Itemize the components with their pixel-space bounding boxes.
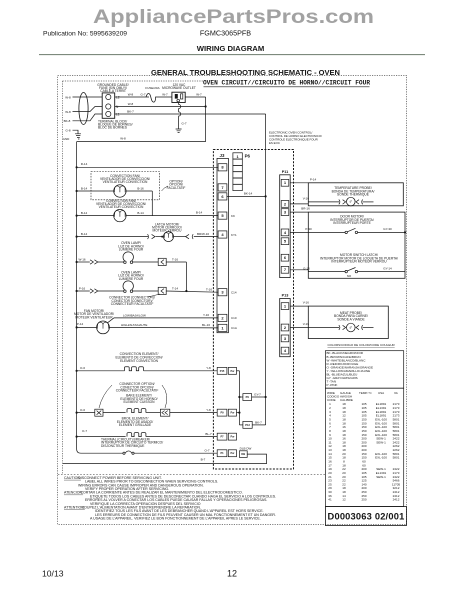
probe connector arrows left <box>339 200 346 205</box>
latch switch S2 <box>345 270 347 272</box>
left bus corner into breaker row <box>77 449 84 453</box>
svg-text:HIGH/ALTA/HAUTE: HIGH/ALTA/HAUTE <box>121 323 147 327</box>
wire gauge table box <box>325 388 403 506</box>
svg-text:KY1: KY1 <box>231 233 237 237</box>
P11 pin 6 <box>281 254 289 261</box>
svg-text:4: 4 <box>284 348 287 353</box>
svg-text:O-6: O-6 <box>80 366 85 370</box>
svg-text:O-7: O-7 <box>204 448 209 452</box>
svg-text:41: 41 <box>328 498 332 502</box>
J3 pin 8 <box>218 164 227 171</box>
lamp1 connector box <box>158 258 166 265</box>
svg-text:LUMIERE FOUR: LUMIERE FOUR <box>119 277 144 281</box>
P13 pin 1 <box>281 303 289 310</box>
svg-text:P-14: P-14 <box>310 178 317 182</box>
svg-text:DISJONCTEUR THERMIQUE: DISJONCTEUR THERMIQUE <box>101 444 145 448</box>
wire P-14 to fan motor <box>77 326 97 328</box>
wire BK-7 to BK net <box>252 424 265 426</box>
svg-text:2: 2 <box>284 201 287 206</box>
svg-text:SONDE A VIANDE: SONDE A VIANDE <box>337 317 365 321</box>
svg-text:WIRING DIAGRAM: WIRING DIAGRAM <box>197 44 264 53</box>
svg-text:T-14: T-14 <box>172 287 178 291</box>
wire breaker row <box>84 452 123 454</box>
svg-text:7: 7 <box>221 185 224 190</box>
wire outlet to corner <box>185 96 205 98</box>
svg-text:V-16: V-16 <box>303 322 310 326</box>
svg-text:GND: GND <box>63 137 71 141</box>
connector J3 outline <box>217 158 228 332</box>
svg-text:6: 6 <box>284 255 287 260</box>
probe connector arrows right <box>356 200 363 205</box>
pointer lines to connectors <box>99 385 112 408</box>
svg-text:VENTILATEUR CONVECTION: VENTILATEUR CONVECTION <box>103 180 148 184</box>
connector P15 <box>217 367 227 374</box>
svg-text:V-16: V-16 <box>303 196 310 200</box>
svg-text:EXL-100: EXL-100 <box>375 456 387 460</box>
ground symbol cable <box>75 134 81 139</box>
svg-text:VENTILATEUR CONVECTION: VENTILATEUR CONVECTION <box>99 205 144 209</box>
svg-text:G-8: G-8 <box>65 129 70 133</box>
svg-text:2412: 2412 <box>393 498 400 502</box>
wire P-14 P11 pin1 to temp probe box <box>290 182 308 184</box>
svg-text:V-16: V-16 <box>303 301 310 305</box>
wire G-16 P11 pin7 <box>290 269 308 271</box>
svg-text:2: 2 <box>284 325 287 330</box>
svg-text:Publication No: 5995639209: Publication No: 5995639209 <box>43 30 127 37</box>
svg-text:W-7: W-7 <box>162 93 168 97</box>
wire L2 row <box>115 96 149 98</box>
svg-text:T-16: T-16 <box>172 258 178 262</box>
inner frame left <box>62 81 64 474</box>
svg-text:5801: 5801 <box>393 456 400 460</box>
J3 pin 3 <box>218 289 227 296</box>
wire B-14 fan to J3 pin5 <box>126 215 218 217</box>
wire L2 drop to neutral corner <box>205 97 207 142</box>
wire GY-14 to right edge <box>358 271 406 273</box>
connector pair breaker <box>228 450 236 457</box>
P11 pin 5 <box>281 238 289 245</box>
header rule <box>39 54 425 56</box>
svg-text:B-14: B-14 <box>81 211 88 215</box>
lamp2 connector box <box>158 287 166 294</box>
svg-text:Y-8: Y-8 <box>206 366 211 370</box>
EOC control dashed box <box>213 150 293 470</box>
svg-text:W-8: W-8 <box>128 93 134 97</box>
P11 pin 4 <box>281 229 289 236</box>
J3 pin 5 <box>218 212 227 219</box>
svg-text:P-16: P-16 <box>79 287 86 291</box>
svg-text:Pw: Pw <box>231 369 236 373</box>
svg-text:Pw: Pw <box>231 435 236 439</box>
svg-text:C10: C10 <box>231 316 237 320</box>
cable oval <box>79 93 88 125</box>
svg-text:BL-16: BL-16 <box>202 323 210 327</box>
inner frame top <box>63 80 204 82</box>
svg-text:B-14: B-14 <box>81 232 88 236</box>
J3 pin 2 <box>218 314 227 321</box>
connector P13 outline <box>280 299 291 357</box>
bake element heater <box>127 409 146 413</box>
svg-text:BK-8: BK-8 <box>64 119 71 123</box>
wire junction to net <box>237 412 240 414</box>
svg-text:LUMIERE FOUR: LUMIERE FOUR <box>119 248 144 252</box>
latch motor M2 <box>164 232 174 242</box>
convection fan motor M1 <box>114 209 126 221</box>
terminal N <box>106 104 111 109</box>
svg-text:MOTEUR VENTILATEUR: MOTEUR VENTILATEUR <box>75 315 113 319</box>
color legend box <box>325 351 403 389</box>
svg-text:P7: P7 <box>220 435 224 439</box>
terminal L2 <box>106 94 111 99</box>
meat probe RT2 <box>347 323 356 332</box>
svg-text:BK-14: BK-14 <box>244 192 253 196</box>
wire to P9 drop <box>237 370 240 372</box>
svg-text:W-8: W-8 <box>128 102 134 106</box>
bake connector box chevrons <box>160 409 169 416</box>
wire from DB right and back to neutral <box>63 454 267 464</box>
svg-text:C1A: C1A <box>231 326 237 330</box>
connector P1 <box>217 450 227 457</box>
terminal block <box>102 93 115 118</box>
inner frame bottom <box>58 473 326 475</box>
svg-text:T-16: T-16 <box>206 287 212 291</box>
J3 pin 6 <box>218 193 227 200</box>
svg-text:W-8: W-8 <box>120 137 126 141</box>
svg-text:1: 1 <box>237 155 239 159</box>
terminal L1 <box>106 111 111 116</box>
svg-text:DB: DB <box>241 452 245 456</box>
svg-text:SEW-1: SEW-1 <box>376 475 386 479</box>
svg-text:GY-7: GY-7 <box>254 392 261 396</box>
svg-text:GENERAL TROUBLESHOOTING SCHEMA: GENERAL TROUBLESHOOTING SCHEMATIC - OVEN <box>151 68 340 77</box>
latch connector arrows <box>148 234 156 239</box>
svg-text:TEMP-°C: TEMP-°C <box>359 391 373 395</box>
svg-text:C14: C14 <box>231 291 237 295</box>
svg-text:N: N <box>116 105 119 109</box>
connector DB <box>239 451 247 458</box>
svg-text:SONDE THERMIQUE: SONDE THERMIQUE <box>337 193 370 197</box>
wire N into terminal block <box>73 107 103 112</box>
wire V-16 P13 pin2 <box>290 327 339 329</box>
connector P9 mid <box>243 394 252 401</box>
J3 pin 1 <box>218 324 227 331</box>
ground symbol outlet <box>176 129 182 133</box>
svg-text:FUSE/20A: FUSE/20A <box>145 86 159 90</box>
wire neutral across to left bus <box>77 141 206 143</box>
svg-text:W-16: W-16 <box>78 258 85 262</box>
svg-text:6: 6 <box>221 194 224 199</box>
convection fan option dashed box <box>91 172 160 200</box>
svg-text:SEW-1: SEW-1 <box>376 440 386 444</box>
P11 pin 7 <box>281 266 289 273</box>
J3 pin 4 <box>218 231 227 238</box>
svg-text:P13: P13 <box>245 423 250 427</box>
wire L2 into terminal block <box>73 96 103 98</box>
probe wire <box>308 201 339 203</box>
svg-text:K9: K9 <box>231 214 235 218</box>
wire L1 row BK-7 <box>115 113 266 115</box>
svg-text:MICROWAVE OUTLET: MICROWAVE OUTLET <box>162 86 196 90</box>
meat probe connector arrows left <box>339 325 346 330</box>
svg-text:R-14: R-14 <box>81 162 88 166</box>
svg-text:O-7: O-7 <box>82 429 87 433</box>
wire T-16 lamp1 to junction <box>166 261 186 263</box>
svg-text:A USAGE DE L'APPAREIL. VERIFIE: A USAGE DE L'APPAREIL. VERIFIEZ LE BON F… <box>90 517 261 521</box>
svg-text:7: 7 <box>284 267 287 272</box>
svg-text:BK-7: BK-7 <box>255 421 262 425</box>
temperature probe RT1 <box>347 197 356 206</box>
svg-text:B-7: B-7 <box>201 457 206 461</box>
lamp1 connector arrow <box>90 260 98 264</box>
svg-text:Y-16: Y-16 <box>203 313 209 317</box>
wire N row <box>115 106 206 108</box>
svg-text:ES EOC: ES EOC <box>269 141 280 145</box>
svg-text:P11: P11 <box>282 170 289 174</box>
svg-text:INTERRUPTEUR MOTEUR VERROU: INTERRUPTEUR MOTEUR VERROU <box>331 260 387 264</box>
wire O-7 broil row <box>77 436 126 438</box>
svg-text:ELEMENT CONVECTION: ELEMENT CONVECTION <box>120 359 159 363</box>
temperature probe box <box>308 183 403 206</box>
svg-text:BK-7: BK-7 <box>127 109 134 113</box>
door motor box <box>308 212 405 278</box>
wire BK-14 J3 pin6 <box>227 195 266 197</box>
meat probe connector arrows right <box>356 325 363 330</box>
drawing number box <box>325 507 406 526</box>
svg-text:B-16: B-16 <box>137 187 144 191</box>
svg-text:ELEMENT CUISSON: ELEMENT CUISSON <box>123 400 155 404</box>
door motor switch S1 <box>345 231 347 233</box>
wire BK L1 drop <box>265 114 267 425</box>
svg-text:FGMC3065PFB: FGMC3065PFB <box>200 28 251 37</box>
microwave outlet J1 <box>172 92 185 102</box>
svg-text:BL-7: BL-7 <box>205 432 212 436</box>
svg-text:t°: t° <box>350 200 353 204</box>
svg-text:CABLE,A TERRE: CABLE,A TERRE <box>100 89 126 93</box>
wire to optional fan <box>77 190 114 192</box>
svg-text:P13: P13 <box>282 294 289 298</box>
junction N <box>205 105 207 107</box>
vertical connector net <box>238 371 240 425</box>
svg-text:OVEN CIRCUIT//CIRCUITO DE HORN: OVEN CIRCUIT//CIRCUITO DE HORNO//CIRCUIT… <box>203 80 370 87</box>
svg-text:CONNECTEUR FACULTATIF: CONNECTEUR FACULTATIF <box>111 302 154 306</box>
convection element heater <box>125 367 144 371</box>
svg-text:5: 5 <box>284 239 287 244</box>
svg-text:D0003063 02/001: D0003063 02/001 <box>328 512 405 522</box>
svg-text:P-14: P-14 <box>77 322 84 326</box>
svg-text:4: 4 <box>284 230 287 235</box>
oven lamp 1 <box>123 252 133 261</box>
svg-text:USA: USA <box>378 391 384 395</box>
wire GY-7 to BK net <box>252 396 266 398</box>
svg-text:P9: P9 <box>246 395 250 399</box>
svg-text:LOW/BAJA/LOW: LOW/BAJA/LOW <box>123 313 146 317</box>
svg-text:AppliancePartsPros.com: AppliancePartsPros.com <box>93 6 374 28</box>
svg-text:COLORS/CODIGO DE COLOR/CODE CO: COLORS/CODIGO DE COLOR/CODE COULEUR <box>328 343 396 347</box>
latch connector arrows right <box>186 234 194 239</box>
svg-text:G-16: G-16 <box>303 266 310 270</box>
oven lamp 2 <box>123 281 133 290</box>
svg-text:P15: P15 <box>220 369 225 373</box>
wire B-14 to latch motor <box>77 236 148 238</box>
lamp2 connector arrow <box>90 289 98 293</box>
svg-text:INTERRUPTEUR PORTE: INTERRUPTEUR PORTE <box>333 221 371 225</box>
svg-text:Pw: Pw <box>231 451 236 455</box>
bake connector box X <box>95 409 103 416</box>
svg-text:B-14: B-14 <box>81 187 88 191</box>
connector P9 bake <box>217 409 227 416</box>
outlet ground drop G-7 with hops <box>179 103 181 130</box>
fan motor low wire Y-16 to J3 pin2 <box>108 318 219 323</box>
svg-text:J3: J3 <box>220 153 225 158</box>
svg-text:P6: P6 <box>245 153 251 158</box>
P11 pin 3 <box>281 209 289 216</box>
svg-text:3: 3 <box>284 210 287 215</box>
svg-text:12: 12 <box>342 498 346 502</box>
svg-text:3: 3 <box>221 290 224 295</box>
fan motor M3 <box>97 321 110 334</box>
svg-text:FACULTATIF: FACULTATIF <box>167 186 186 190</box>
connector pair bake <box>228 409 236 416</box>
optional convection fan motor <box>114 185 126 197</box>
wire O-6 convection element row <box>77 370 125 372</box>
svg-text:P -PINK: P -PINK <box>327 383 338 387</box>
svg-text:8: 8 <box>221 165 224 170</box>
wire B-14 to convection fan <box>77 215 114 217</box>
svg-text:Pw: Pw <box>231 411 236 415</box>
svg-text:B-14: B-14 <box>196 211 203 215</box>
wire BR/W-16 to J3 pin4 <box>194 236 218 238</box>
wire GY-30 to right edge <box>358 231 406 233</box>
wire BR-16 P11 pin3 <box>290 211 308 213</box>
svg-text:250: 250 <box>361 498 366 502</box>
svg-text:1: 1 <box>284 304 287 309</box>
wire W-16 to lamp1 <box>77 261 90 263</box>
P13 pin 2 <box>281 324 289 331</box>
wire O-6 bake row <box>77 412 95 414</box>
svg-text:CODE: CODE <box>327 398 336 402</box>
svg-text:W-7: W-7 <box>196 92 202 96</box>
connector pair broil <box>228 433 236 440</box>
svg-text:O-6: O-6 <box>80 408 85 412</box>
svg-text:L1: L1 <box>116 113 120 117</box>
svg-text:BR-16: BR-16 <box>301 207 310 211</box>
svg-text:NO: NO <box>347 274 352 278</box>
svg-text:P1: P1 <box>220 451 224 455</box>
J3 pin 7 <box>218 184 227 191</box>
svg-text:5: 5 <box>221 213 224 218</box>
fan motor high wire BL-16 to J3 pin1 <box>109 326 218 329</box>
connector P13 mid <box>243 421 252 428</box>
svg-text:P9: P9 <box>220 411 224 415</box>
wire P-30 P11 pin4 <box>290 231 345 233</box>
svg-text:W-8: W-8 <box>65 110 71 114</box>
fuse F1 <box>146 93 172 102</box>
P13 pin 3 <box>281 335 289 342</box>
svg-text:BLOC DE BORNES: BLOC DE BORNES <box>98 126 128 130</box>
svg-text:1: 1 <box>284 180 287 185</box>
svg-text:10/13: 10/13 <box>42 569 64 579</box>
svg-text:Y-8: Y-8 <box>206 408 211 412</box>
wire V-16 P13 pin1 meat probe top <box>290 305 308 307</box>
svg-text:BR/W-16: BR/W-16 <box>197 232 209 236</box>
svg-text:4: 4 <box>221 232 224 237</box>
svg-text:3: 3 <box>284 336 287 341</box>
svg-text:W-8: W-8 <box>65 96 71 100</box>
wire T-14 join <box>166 291 218 292</box>
connector P11 outline <box>280 175 291 278</box>
outer frame <box>58 76 407 525</box>
connector pair convection <box>228 367 236 374</box>
svg-text:G-7: G-7 <box>181 122 186 126</box>
svg-text:ELEMENT GRILLADE: ELEMENT GRILLADE <box>119 423 152 427</box>
wire P-16 to lamp2 <box>77 290 90 292</box>
P13 pin 4 <box>281 347 289 354</box>
P11 pin 1 <box>281 179 289 186</box>
P11 pin 2 <box>281 201 289 208</box>
svg-text:CALIBRE: CALIBRE <box>340 398 353 402</box>
svg-text:GY-30: GY-30 <box>383 227 392 231</box>
wire V-16 P11 pin2 <box>290 203 308 205</box>
svg-text:DLB DW: DLB DW <box>240 446 252 450</box>
meat probe box <box>308 306 388 338</box>
broil element heater <box>127 433 146 437</box>
svg-text:P-30: P-30 <box>305 227 312 231</box>
svg-text:t°: t° <box>350 326 353 330</box>
svg-text:12: 12 <box>227 569 237 579</box>
option join wire <box>151 191 153 216</box>
svg-text:2: 2 <box>221 315 224 320</box>
svg-text:B-14: B-14 <box>137 211 144 215</box>
svg-text:1: 1 <box>221 325 224 330</box>
svg-text:GY-14: GY-14 <box>383 266 392 270</box>
wire L1 into terminal block <box>73 114 103 121</box>
svg-text:VA: VA <box>394 391 398 395</box>
connector P7 <box>217 433 227 440</box>
svg-text:L2: L2 <box>116 96 120 100</box>
thermal breaker CB1 <box>123 452 125 454</box>
svg-text:G-7: G-7 <box>140 93 145 97</box>
left bus wire L2/neutral <box>76 142 78 449</box>
svg-text:CONNECTEUR FACULTATIF: CONNECTEUR FACULTATIF <box>116 389 159 393</box>
wire G to ground <box>73 130 79 133</box>
